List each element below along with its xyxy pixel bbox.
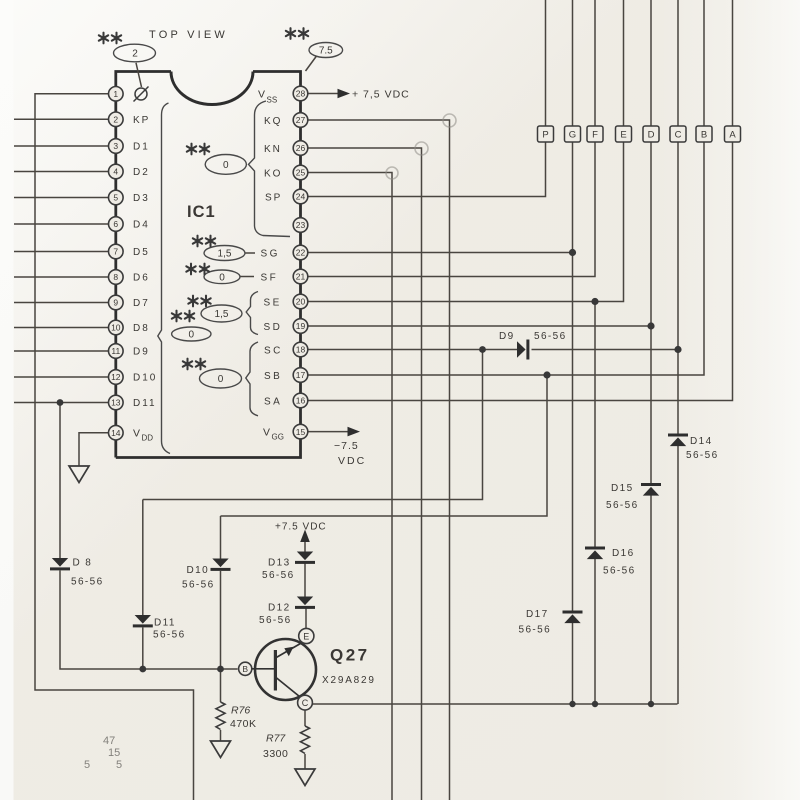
svg-text:D 8: D 8 — [73, 558, 93, 569]
svg-text:D7: D7 — [133, 298, 150, 309]
svg-text:1: 1 — [113, 89, 118, 99]
svg-text:D: D — [648, 130, 655, 141]
svg-text:47: 47 — [103, 735, 115, 747]
svg-text:D16: D16 — [612, 548, 635, 559]
svg-text:D5: D5 — [133, 247, 150, 258]
svg-text:D1: D1 — [133, 142, 150, 153]
svg-text:1,5: 1,5 — [218, 249, 232, 260]
svg-text:DD: DD — [142, 434, 154, 443]
svg-text:23: 23 — [296, 220, 306, 230]
svg-text:16: 16 — [296, 396, 306, 406]
svg-text:21: 21 — [296, 272, 306, 282]
svg-text:56-56: 56-56 — [182, 580, 215, 591]
svg-text:15: 15 — [296, 427, 306, 437]
svg-text:2: 2 — [113, 115, 118, 125]
svg-text:KQ: KQ — [264, 116, 282, 127]
svg-text:15: 15 — [108, 747, 120, 759]
svg-text:56-56: 56-56 — [686, 450, 719, 461]
svg-text:22: 22 — [296, 248, 306, 258]
svg-text:0: 0 — [223, 160, 229, 171]
svg-text:P: P — [542, 130, 548, 141]
svg-text:D11: D11 — [154, 618, 176, 629]
svg-text:56-56: 56-56 — [606, 500, 639, 511]
svg-text:R77: R77 — [266, 733, 286, 745]
svg-text:X29A829: X29A829 — [322, 675, 376, 686]
svg-text:KP: KP — [133, 115, 150, 126]
svg-text:7.5: 7.5 — [319, 46, 333, 57]
svg-text:V: V — [133, 428, 140, 440]
svg-text:D3: D3 — [133, 193, 150, 204]
svg-text:−7.5: −7.5 — [334, 440, 359, 452]
svg-text:B: B — [242, 664, 248, 674]
svg-text:10: 10 — [111, 323, 121, 333]
svg-text:SD: SD — [264, 322, 283, 333]
svg-text:KO: KO — [264, 169, 282, 180]
svg-text:D14: D14 — [690, 436, 713, 447]
svg-text:0: 0 — [219, 272, 225, 283]
svg-text:SS: SS — [267, 96, 278, 105]
svg-text:12: 12 — [111, 372, 121, 382]
svg-text:19: 19 — [296, 321, 306, 331]
svg-text:+ 7,5 VDC: + 7,5 VDC — [352, 89, 410, 101]
svg-text:D13: D13 — [268, 558, 291, 569]
svg-text:G: G — [569, 130, 576, 141]
svg-text:56-56: 56-56 — [153, 630, 186, 641]
svg-text:5: 5 — [116, 759, 122, 771]
svg-text:0: 0 — [218, 374, 224, 385]
svg-text:3300: 3300 — [263, 748, 288, 760]
svg-text:1,5: 1,5 — [215, 309, 229, 320]
svg-text:SP: SP — [265, 193, 282, 204]
svg-text:D8: D8 — [133, 323, 150, 334]
svg-text:IC1: IC1 — [187, 203, 216, 221]
svg-text:D10: D10 — [187, 565, 210, 576]
svg-text:5: 5 — [84, 759, 90, 771]
svg-text:SC: SC — [264, 346, 283, 357]
svg-text:11: 11 — [111, 346, 120, 356]
svg-text:SA: SA — [264, 397, 282, 408]
svg-text:56-56: 56-56 — [603, 566, 636, 577]
svg-text:E: E — [620, 130, 626, 141]
svg-text:8: 8 — [113, 272, 118, 282]
svg-text:27: 27 — [296, 115, 306, 125]
svg-text:7: 7 — [113, 247, 118, 257]
svg-text:13: 13 — [111, 398, 121, 408]
svg-text:6: 6 — [113, 219, 118, 229]
svg-text:Q27: Q27 — [330, 646, 370, 665]
svg-text:17: 17 — [296, 370, 306, 380]
svg-text:D11: D11 — [133, 398, 157, 409]
svg-text:B: B — [701, 130, 707, 141]
svg-text:14: 14 — [111, 428, 121, 438]
svg-text:D9: D9 — [133, 347, 150, 358]
svg-text:D15: D15 — [611, 483, 634, 494]
svg-text:GG: GG — [272, 433, 284, 442]
svg-text:5: 5 — [113, 193, 118, 203]
svg-text:D17: D17 — [526, 609, 549, 620]
svg-text:C: C — [302, 698, 309, 708]
svg-text:D9: D9 — [499, 331, 515, 342]
svg-text:56-56: 56-56 — [71, 577, 104, 588]
svg-text:18: 18 — [296, 345, 306, 355]
svg-text:D2: D2 — [133, 167, 150, 178]
svg-text:V: V — [258, 89, 265, 101]
svg-text:+7.5 VDC: +7.5 VDC — [275, 522, 327, 533]
svg-text:4: 4 — [113, 167, 118, 177]
svg-text:SE: SE — [264, 298, 282, 309]
svg-text:24: 24 — [296, 192, 306, 202]
svg-text:V: V — [263, 427, 270, 439]
svg-text:E: E — [303, 632, 309, 642]
svg-text:56-56: 56-56 — [534, 331, 567, 342]
svg-text:SG: SG — [261, 249, 280, 260]
svg-text:26: 26 — [296, 143, 306, 153]
svg-text:VDC: VDC — [338, 455, 366, 467]
svg-text:KN: KN — [264, 144, 282, 155]
svg-text:D10: D10 — [133, 373, 157, 384]
svg-text:28: 28 — [296, 89, 306, 99]
svg-text:D4: D4 — [133, 220, 150, 231]
svg-text:2: 2 — [132, 48, 138, 59]
svg-text:3: 3 — [113, 141, 118, 151]
svg-text:56-56: 56-56 — [259, 615, 292, 626]
svg-text:470K: 470K — [230, 718, 257, 730]
svg-text:A: A — [729, 130, 736, 141]
svg-text:C: C — [675, 130, 682, 141]
svg-text:D6: D6 — [133, 273, 150, 284]
svg-text:R76: R76 — [231, 705, 250, 717]
svg-text:D12: D12 — [268, 603, 291, 614]
svg-text:56-56: 56-56 — [262, 570, 295, 581]
svg-text:56-56: 56-56 — [519, 625, 552, 636]
svg-text:TOP VIEW: TOP VIEW — [149, 29, 228, 41]
svg-text:25: 25 — [296, 168, 306, 178]
svg-text:20: 20 — [296, 297, 306, 307]
svg-text:0: 0 — [189, 330, 195, 341]
svg-text:F: F — [592, 130, 598, 141]
svg-text:SF: SF — [261, 273, 279, 284]
svg-text:SB: SB — [264, 371, 282, 382]
svg-text:9: 9 — [113, 298, 118, 308]
